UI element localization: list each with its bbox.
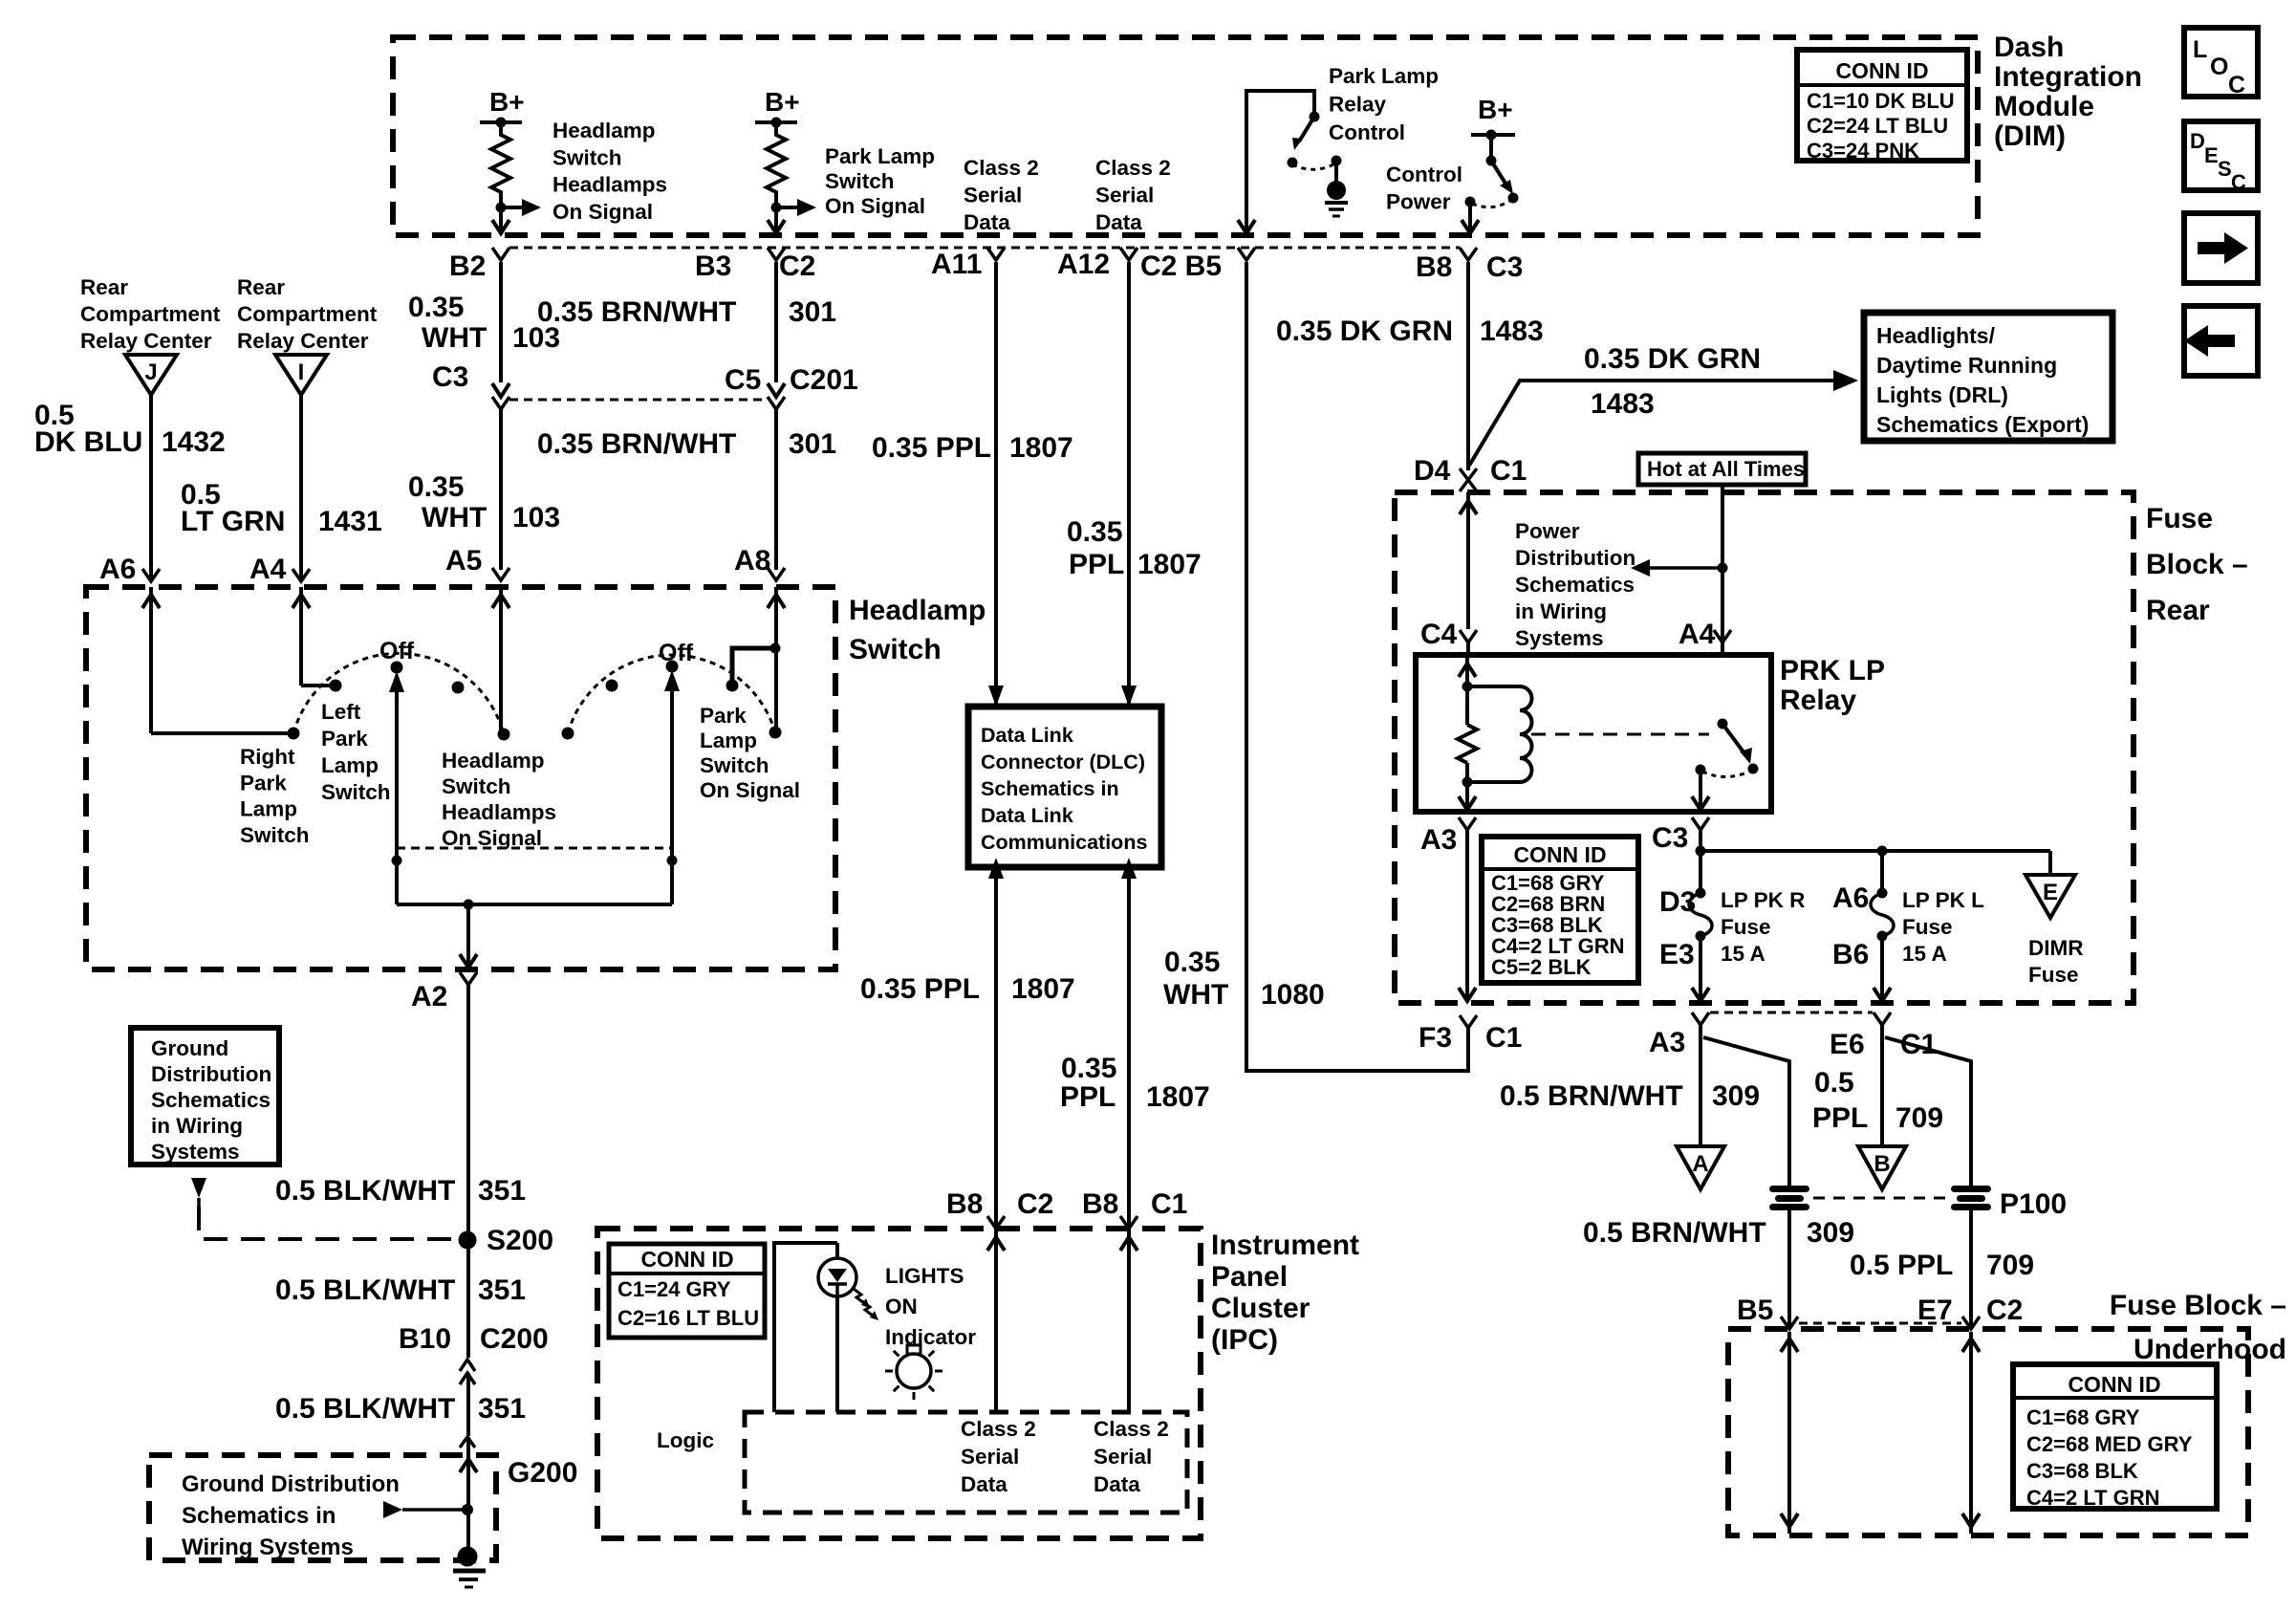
wire switch output <box>1692 770 1709 811</box>
svg-text:Data: Data <box>964 210 1010 234</box>
svg-text:1431: 1431 <box>318 506 382 537</box>
svg-text:Systems: Systems <box>151 1140 240 1164</box>
switch common dashed link <box>397 847 672 850</box>
connector chevron B5 <box>1781 1317 1798 1329</box>
pin label A8 <box>734 545 770 577</box>
pin label B6 <box>1832 939 1869 970</box>
svg-text:B8: B8 <box>1082 1188 1118 1220</box>
wire label <box>275 1393 526 1425</box>
svg-text:Serial: Serial <box>964 184 1022 207</box>
svg-text:LP PK R: LP PK R <box>1721 888 1805 912</box>
svg-text:Off: Off <box>379 638 415 664</box>
svg-text:Fuse: Fuse <box>1721 915 1771 939</box>
signal arrow: Park Lamp Switch On Signal <box>776 199 816 216</box>
svg-text:I: I <box>298 359 305 385</box>
svg-text:Rear: Rear <box>237 275 285 299</box>
power B+ node 2 <box>755 87 800 128</box>
svg-text:C1=24 GRY: C1=24 GRY <box>617 1277 731 1301</box>
svg-text:WHT: WHT <box>422 322 487 354</box>
svg-text:A2: A2 <box>411 981 447 1012</box>
svg-text:1807: 1807 <box>1011 973 1075 1005</box>
svg-text:Fuse: Fuse <box>2028 963 2079 987</box>
svg-text:LT GRN: LT GRN <box>181 506 285 537</box>
wire <box>1466 642 1470 655</box>
wire C3 bus <box>1696 830 2051 875</box>
svg-text:Control: Control <box>1329 120 1405 144</box>
svg-text:C3=24 PNK: C3=24 PNK <box>1807 139 1919 163</box>
svg-text:Hot at All Times: Hot at All Times <box>1647 457 1805 481</box>
svg-text:B+: B+ <box>489 87 525 117</box>
svg-text:1807: 1807 <box>1146 1081 1210 1113</box>
svg-text:A5: A5 <box>445 545 482 577</box>
pin label C2 <box>1017 1188 1053 1220</box>
connector chevron E6 <box>1874 1012 1891 1025</box>
svg-text:C1=10 DK BLU: C1=10 DK BLU <box>1807 89 1955 113</box>
wire A5 into box <box>492 587 509 734</box>
svg-text:B10: B10 <box>399 1323 451 1355</box>
svg-text:L: L <box>2193 36 2207 63</box>
svg-text:C2=24 LT BLU: C2=24 LT BLU <box>1807 114 1948 138</box>
wire label <box>408 471 560 533</box>
pin label B5 <box>1737 1295 1773 1326</box>
svg-text:0.5 BRN/WHT: 0.5 BRN/WHT <box>1500 1080 1683 1112</box>
svg-text:S: S <box>2218 157 2232 181</box>
svg-text:Data: Data <box>1095 210 1142 234</box>
pin label F3 <box>1419 1022 1452 1054</box>
triangle connector A <box>1677 1146 1724 1189</box>
connector chevron F3 <box>1460 1015 1477 1028</box>
svg-text:Compartment: Compartment <box>237 302 378 326</box>
svg-text:1483: 1483 <box>1591 388 1655 420</box>
arrow into DIM edge <box>768 220 785 233</box>
pin label C201 <box>790 364 858 396</box>
label <box>552 119 667 224</box>
svg-text:C: C <box>2231 170 2246 194</box>
svg-text:A12: A12 <box>1057 249 1110 280</box>
pin label E6 <box>1830 1029 1865 1060</box>
svg-text:0.5 BRN/WHT: 0.5 BRN/WHT <box>1583 1217 1766 1249</box>
pin label C4 <box>1420 619 1458 650</box>
svg-text:Distribution: Distribution <box>1515 546 1635 570</box>
label Logic <box>657 1428 714 1452</box>
svg-text:1483: 1483 <box>1480 316 1544 347</box>
bulb symbol <box>885 1345 942 1400</box>
connector chevron B3 <box>768 248 785 260</box>
component box: Headlamp Switch <box>86 587 835 969</box>
switch: control power <box>1465 156 1519 207</box>
relay actuation dashed link <box>1531 733 1709 736</box>
connector chevron A11 <box>987 248 1005 260</box>
wire label 0.5 LT GRN 1431 <box>181 479 382 537</box>
label: Fuse Block - Underhood <box>2110 1290 2286 1365</box>
wire label <box>537 296 836 328</box>
label: Class 2 Serial Data (left) <box>961 1417 1036 1496</box>
wire B2-A5 (0.35 WHT 103) <box>499 262 503 382</box>
svg-text:351: 351 <box>478 1274 526 1306</box>
pin label A3 <box>1420 824 1457 856</box>
arrow into DIM edge <box>1462 220 1479 233</box>
svg-text:Lamp: Lamp <box>240 797 297 821</box>
svg-text:Class 2: Class 2 <box>1094 1417 1169 1441</box>
box: Headlights/DRL Schematics (Export) <box>1864 313 2112 441</box>
pin label A4 <box>249 554 287 585</box>
svg-text:in Wiring: in Wiring <box>1515 599 1607 623</box>
svg-text:P100: P100 <box>2000 1188 2067 1220</box>
svg-text:351: 351 <box>478 1175 526 1207</box>
svg-text:J: J <box>144 359 157 385</box>
conn id box (DIM) <box>1797 50 1967 163</box>
pin label C1 <box>1151 1188 1187 1220</box>
svg-text:C2 B5: C2 B5 <box>1140 250 1222 282</box>
svg-text:Integration: Integration <box>1994 61 2142 93</box>
wire (0.5 PPL 709) <box>1969 1210 1973 1327</box>
svg-text:0.5: 0.5 <box>1814 1067 1854 1099</box>
svg-text:0.35: 0.35 <box>1164 947 1220 978</box>
pin label A12 <box>1057 249 1110 280</box>
svg-text:1807: 1807 <box>1009 432 1073 464</box>
svg-text:Left: Left <box>321 700 361 724</box>
svg-text:On Signal: On Signal <box>442 826 542 850</box>
pin label B8 <box>1082 1188 1118 1220</box>
svg-text:Switch: Switch <box>552 145 622 169</box>
power B+ node 3 <box>1471 95 1515 141</box>
label: Fuse Block - Rear <box>2146 503 2248 626</box>
wire into logic (right) <box>1120 1229 1137 1412</box>
box: Data Link Connector (DLC) <box>968 707 1161 867</box>
ground G200 <box>453 1547 486 1588</box>
svg-text:Relay: Relay <box>1329 92 1387 116</box>
conn id box (underhood) <box>2013 1364 2217 1510</box>
svg-text:C1: C1 <box>1485 1022 1522 1054</box>
label: Power Distribution Schematics in Wiring Systems <box>1515 519 1635 650</box>
svg-text:Headlamps: Headlamps <box>552 173 667 197</box>
svg-text:103: 103 <box>512 502 560 533</box>
svg-text:Logic: Logic <box>657 1428 714 1452</box>
label: LP PK L Fuse 15 A <box>1902 888 1984 966</box>
wire A4 into box <box>292 587 330 686</box>
grommet dashed link <box>1813 1197 1947 1200</box>
svg-text:301: 301 <box>789 296 836 328</box>
switch: park lamp relay control <box>1288 112 1342 170</box>
wire to connector B (0.5 PPL 709) <box>1880 1025 1884 1146</box>
label: Park Lamp Relay Control <box>1329 64 1439 144</box>
switch wiper (right) <box>664 670 680 904</box>
pin label C1 <box>1900 1029 1937 1060</box>
wire label <box>1584 343 1761 420</box>
resistor: park lamp switch pull-up <box>767 122 786 198</box>
svg-text:C2=68 MED GRY: C2=68 MED GRY <box>2026 1432 2193 1456</box>
connector dashed line A3-E6 <box>1710 1012 1873 1014</box>
conn id box (rear) <box>1482 837 1638 983</box>
svg-text:301: 301 <box>789 428 836 460</box>
connector chevron G200 <box>460 1437 475 1448</box>
wire (0.5 BLK/WHT 351) <box>466 1240 470 1358</box>
svg-text:0.35: 0.35 <box>408 471 464 503</box>
signal arrow: Headlamp Switch Headlamps On Signal <box>501 199 541 216</box>
svg-text:C2=16 LT BLU: C2=16 LT BLU <box>617 1306 759 1330</box>
label: Headlamp Switch Headlamps On Signal <box>442 749 556 850</box>
svg-text:15 A: 15 A <box>1902 942 1947 966</box>
wire from hot feed <box>1718 485 1728 574</box>
svg-text:Ground: Ground <box>151 1036 228 1060</box>
label: LIGHTS ON Indicator <box>885 1264 976 1349</box>
pin label E3 <box>1659 939 1695 970</box>
svg-text:C5: C5 <box>725 364 761 396</box>
svg-text:C2: C2 <box>1017 1188 1053 1220</box>
pin label A11 <box>931 249 982 280</box>
switch wiper (left) <box>389 671 404 904</box>
svg-text:E7: E7 <box>1917 1295 1953 1326</box>
svg-text:D3: D3 <box>1659 886 1696 918</box>
wire A2 (0.5 BLK/WHT 351) <box>466 985 470 1231</box>
svg-text:Switch: Switch <box>849 634 942 665</box>
wire label 0.5 DK BLU 1432 <box>34 400 226 458</box>
svg-text:S200: S200 <box>487 1225 553 1256</box>
svg-text:Relay Center: Relay Center <box>80 329 212 353</box>
svg-text:LP PK L: LP PK L <box>1902 888 1984 912</box>
wire A6 into box <box>142 587 288 733</box>
svg-text:B8: B8 <box>946 1188 983 1220</box>
svg-text:Data: Data <box>961 1472 1007 1496</box>
svg-text:E: E <box>2204 143 2219 167</box>
svg-text:Wiring Systems: Wiring Systems <box>182 1535 354 1560</box>
svg-text:PRK LP: PRK LP <box>1780 655 1885 686</box>
svg-text:709: 709 <box>1986 1250 2034 1281</box>
svg-text:Daytime Running: Daytime Running <box>1876 353 2057 378</box>
in-line connector dashed line <box>509 399 768 402</box>
legend box back-arrow <box>2184 306 2258 376</box>
svg-text:WHT: WHT <box>1163 979 1228 1011</box>
label: Park Lamp Switch On Signal <box>700 704 800 802</box>
wire A4 into relay <box>1721 568 1724 655</box>
connector chevron C4 <box>1460 630 1477 642</box>
wire <box>499 409 503 570</box>
legend box LOC <box>2184 28 2258 98</box>
svg-text:Connector (DLC): Connector (DLC) <box>981 751 1145 773</box>
svg-text:0.5 BLK/WHT: 0.5 BLK/WHT <box>275 1175 455 1207</box>
pin label A3 <box>1649 1027 1685 1058</box>
wire <box>1246 91 1314 233</box>
svg-text:A: A <box>1692 1151 1708 1177</box>
connector chevron A4 <box>292 569 310 581</box>
svg-text:Fuse: Fuse <box>2146 503 2213 534</box>
connector chevron A8 <box>768 568 785 580</box>
wire B8 (0.35 DK GRN 1483) <box>1466 262 1470 470</box>
svg-text:309: 309 <box>1712 1080 1760 1112</box>
triangle connector J <box>125 355 177 395</box>
label S200 <box>487 1225 553 1256</box>
arrow into DLC <box>988 686 1004 707</box>
pin label D4 <box>1414 455 1451 487</box>
wire: wiper common bus <box>397 900 672 910</box>
svg-text:Indicator: Indicator <box>885 1325 976 1349</box>
svg-text:B2: B2 <box>449 250 486 282</box>
svg-text:C201: C201 <box>790 364 858 396</box>
pin label A5 <box>445 545 482 577</box>
svg-text:B3: B3 <box>695 250 731 282</box>
label P100 <box>2000 1188 2067 1220</box>
label: LP PK R Fuse 15 A <box>1721 888 1805 966</box>
wire A11 (0.35 PPL 1807) <box>994 262 998 705</box>
svg-text:ON: ON <box>885 1295 918 1318</box>
svg-text:in Wiring: in Wiring <box>151 1114 243 1138</box>
svg-text:Control: Control <box>1386 163 1462 186</box>
svg-text:PPL: PPL <box>1069 549 1124 580</box>
connector dashed line (DIM bottom) <box>509 247 1460 250</box>
pin label A6 <box>1832 882 1869 914</box>
svg-text:WHT: WHT <box>422 502 487 533</box>
svg-text:Serial: Serial <box>961 1445 1019 1469</box>
svg-text:On Signal: On Signal <box>700 778 800 802</box>
svg-text:Fuse: Fuse <box>1902 915 1953 939</box>
legend box forward-arrow <box>2184 213 2258 283</box>
svg-text:On Signal: On Signal <box>825 194 925 218</box>
fuse: LP PK L 15A <box>1871 851 1894 1002</box>
connector chevron B8 <box>1460 248 1477 260</box>
svg-text:Switch: Switch <box>240 823 310 847</box>
svg-text:C1: C1 <box>1490 455 1527 487</box>
wire label <box>1060 1053 1210 1113</box>
svg-text:CONN ID: CONN ID <box>1513 842 1606 867</box>
branch to P100 right <box>1885 1037 1971 1186</box>
svg-text:C4: C4 <box>1420 619 1458 650</box>
connector chevron A3 <box>1459 817 1476 830</box>
svg-text:351: 351 <box>478 1393 526 1425</box>
wire through underhood (right) <box>1962 1332 1980 1534</box>
svg-text:B6: B6 <box>1832 939 1869 970</box>
wire <box>1468 202 1472 232</box>
pin label A6 <box>99 554 136 585</box>
connector chevron A4 <box>1714 630 1731 642</box>
svg-text:0.35 PPL: 0.35 PPL <box>860 973 980 1005</box>
arrow into DLC <box>1121 686 1137 707</box>
svg-text:Block –: Block – <box>2146 549 2248 580</box>
label: Instrument Panel Cluster (IPC) <box>1211 1230 1359 1356</box>
svg-text:C1=68 GRY: C1=68 GRY <box>2026 1405 2140 1429</box>
wire (0.5 BLK/WHT 351) <box>466 1373 470 1436</box>
pin label C1 <box>1485 1022 1522 1054</box>
svg-text:Schematics (Export): Schematics (Export) <box>1876 412 2089 437</box>
svg-text:C3=68 BLK: C3=68 BLK <box>2026 1459 2138 1483</box>
label: Rear Compartment Relay Center (J) <box>80 275 221 353</box>
wire D4 into fuse block <box>1460 492 1477 629</box>
wire label <box>1812 1067 1943 1134</box>
svg-text:O: O <box>2210 54 2228 80</box>
svg-text:(IPC): (IPC) <box>1211 1324 1278 1356</box>
svg-text:Park Lamp: Park Lamp <box>1329 64 1439 88</box>
svg-text:A4: A4 <box>249 554 287 585</box>
svg-text:Systems: Systems <box>1515 626 1604 650</box>
pin label C1 <box>1490 455 1527 487</box>
svg-text:B: B <box>1874 1151 1890 1177</box>
wire label <box>408 292 560 354</box>
label <box>825 144 935 218</box>
svg-text:B+: B+ <box>1478 95 1513 124</box>
arrow into DIM edge <box>492 220 509 233</box>
svg-text:A8: A8 <box>734 545 770 577</box>
pin label A4 <box>1679 619 1716 650</box>
relay coil <box>1462 686 1532 788</box>
svg-text:D4: D4 <box>1414 455 1451 487</box>
pin label C2 B5 <box>1140 250 1222 282</box>
label: Rear Compartment Relay Center (I) <box>237 275 378 353</box>
svg-text:Headlights/: Headlights/ <box>1876 323 1996 348</box>
connector dashed line B5-E7 <box>1799 1322 1961 1325</box>
svg-text:Schematics: Schematics <box>1515 573 1635 597</box>
pin label B8 <box>1416 251 1452 283</box>
svg-text:C3: C3 <box>1486 251 1523 283</box>
svg-text:A3: A3 <box>1420 824 1457 856</box>
rotary switch arc: headlamp switch (left) <box>288 653 510 740</box>
svg-text:CONN ID: CONN ID <box>2068 1372 2160 1397</box>
arrow to power distribution <box>1631 559 1722 577</box>
arrow into DIM edge <box>1238 220 1255 233</box>
connector chevron B2 <box>492 248 509 260</box>
wire DLC-IPC right (0.35 PPL 1807) <box>1121 858 1137 1229</box>
conn id box (IPC) <box>609 1244 765 1338</box>
box: Ground Distribution Schematics in Wiring Systems (G200) <box>149 1455 496 1560</box>
svg-text:Schematics in: Schematics in <box>182 1503 336 1529</box>
svg-text:LIGHTS: LIGHTS <box>885 1264 964 1288</box>
relay box: PRK LP Relay <box>1416 655 1771 812</box>
svg-text:1807: 1807 <box>1137 549 1202 580</box>
fuse: LP PK R 15A <box>1689 851 1712 1002</box>
svg-text:A3: A3 <box>1649 1027 1685 1058</box>
box: Ground Distribution Schematics in Wiring Systems <box>131 1028 279 1165</box>
svg-text:B5: B5 <box>1737 1295 1773 1326</box>
wire label <box>275 1274 526 1306</box>
legend box DESC <box>2184 121 2258 194</box>
dashed link to S200 <box>199 1207 461 1239</box>
svg-text:Park: Park <box>321 727 368 751</box>
svg-text:Underhood: Underhood <box>2134 1334 2286 1365</box>
label: DIMR Fuse <box>2028 936 2084 987</box>
svg-text:Relay Center: Relay Center <box>237 329 369 353</box>
pin label C5 <box>725 364 761 396</box>
svg-text:0.5 BLK/WHT: 0.5 BLK/WHT <box>275 1393 455 1425</box>
component box: Fuse Block - Underhood <box>1728 1329 2248 1535</box>
svg-text:E3: E3 <box>1659 939 1695 970</box>
svg-text:Data Link: Data Link <box>981 724 1073 747</box>
grommet P100 right <box>1951 1186 1991 1210</box>
svg-text:Cluster: Cluster <box>1211 1293 1310 1324</box>
svg-text:Dash: Dash <box>1994 32 2064 63</box>
label: Class 2 Serial Data (A11) <box>964 156 1039 234</box>
svg-text:Switch: Switch <box>442 774 511 798</box>
relay switch <box>1696 719 1759 777</box>
connector chevron B8/C1 <box>1120 1216 1137 1229</box>
svg-text:C5=2 BLK: C5=2 BLK <box>1491 955 1592 979</box>
wire B5 to F3 (0.35 WHT 1080) <box>1246 262 1468 1071</box>
wire label <box>860 973 1075 1005</box>
svg-text:CONN ID: CONN ID <box>640 1247 733 1272</box>
wire LED anode <box>774 1243 837 1412</box>
arrow + connector C5/C201 <box>768 383 785 409</box>
svg-text:B+: B+ <box>765 87 800 117</box>
label: Left Park Lamp Switch <box>321 700 391 804</box>
svg-text:0.35 BRN/WHT: 0.35 BRN/WHT <box>537 296 736 328</box>
svg-text:D: D <box>2190 129 2205 153</box>
svg-text:Compartment: Compartment <box>80 302 221 326</box>
wire label <box>275 1175 526 1207</box>
svg-text:B8: B8 <box>1416 251 1452 283</box>
wire label <box>1276 316 1544 347</box>
wire label <box>1583 1217 1854 1249</box>
svg-text:A4: A4 <box>1679 619 1716 650</box>
svg-text:0.35: 0.35 <box>1061 1053 1116 1084</box>
svg-text:Power: Power <box>1515 519 1580 543</box>
label G200 <box>508 1457 577 1489</box>
